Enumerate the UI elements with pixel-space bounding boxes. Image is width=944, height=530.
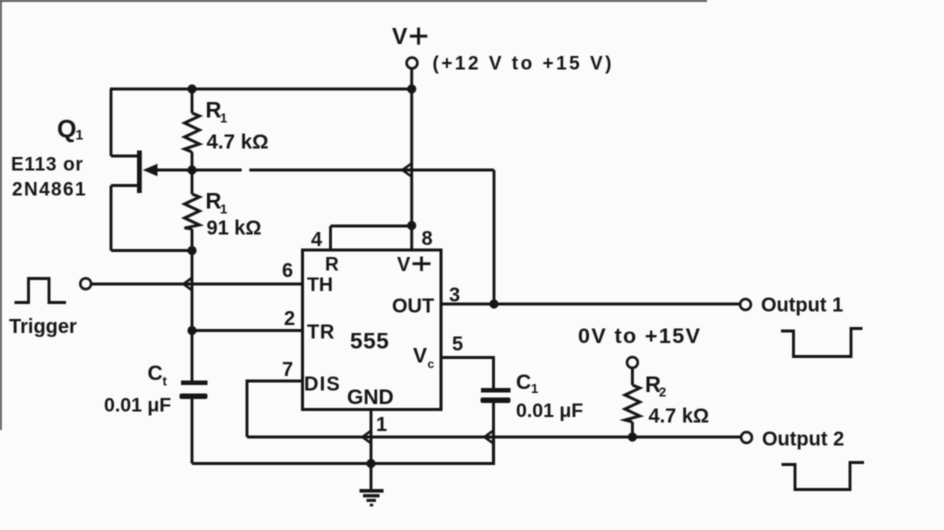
svg-text:t: t — [163, 374, 168, 389]
node top rail / R1 — [187, 84, 196, 93]
arrowhead on gate line at V+ crossing — [403, 164, 412, 177]
wire lower ground rail — [192, 437, 494, 464]
wire gate-link vertical — [493, 170, 496, 304]
svg-text:C: C — [516, 371, 531, 394]
trigger input terminal — [80, 278, 91, 289]
capacitor Ct ref label — [148, 362, 168, 389]
pin 1 vertical — [370, 410, 373, 490]
svg-text:Trigger: Trigger — [9, 316, 77, 338]
power terminal V+ circle — [407, 58, 418, 69]
svg-text:4.7 kΩ: 4.7 kΩ — [207, 131, 269, 154]
svg-text:2: 2 — [659, 385, 666, 400]
svg-text:C: C — [148, 362, 163, 385]
pin 4 stub — [329, 226, 332, 250]
svg-text:Q: Q — [57, 116, 76, 144]
svg-text:2: 2 — [284, 308, 295, 330]
svg-text:4: 4 — [311, 229, 323, 251]
node R2 / output 2 rail — [628, 432, 637, 441]
svg-text:91 kΩ: 91 kΩ — [207, 218, 262, 240]
svg-text:0.01 μF: 0.01 μF — [104, 395, 171, 417]
output 1 terminal — [740, 299, 751, 310]
svg-text:555: 555 — [350, 329, 389, 354]
wire source lead — [111, 155, 139, 158]
svg-text:V: V — [397, 254, 411, 276]
node gate line / divider — [187, 165, 196, 174]
svg-text:R: R — [325, 255, 339, 276]
wire trigger to TH — [92, 283, 304, 286]
output 1 waveform icon — [781, 329, 863, 357]
svg-text:DIS: DIS — [304, 374, 341, 396]
wire divider vertical to cap — [191, 251, 194, 381]
svg-text:Output 2: Output 2 — [762, 429, 844, 451]
svg-text:TR: TR — [307, 322, 335, 344]
svg-text:c: c — [428, 357, 435, 371]
wire left vertical upper — [110, 89, 113, 156]
svg-text:GND: GND — [347, 386, 394, 409]
transistor Q1 channel bar — [137, 151, 142, 194]
pin Vc label — [413, 345, 435, 372]
resistor R1 (4.7k) leads — [191, 89, 194, 113]
svg-text:E113 or: E113 or — [11, 155, 84, 176]
arrowhead trigger line at divider — [184, 278, 193, 290]
capacitor Ct bottom plate — [180, 394, 208, 400]
resistor R2 terminal — [627, 357, 638, 368]
wire Vc line — [441, 358, 494, 389]
resistor R2 leads — [631, 368, 634, 385]
resistor R1 (91k) zigzag — [185, 194, 200, 229]
resistor R1 (91k) leads — [191, 170, 194, 194]
wire output 2 rail — [247, 435, 741, 438]
resistor R1 (4.7k) ref label — [206, 98, 228, 126]
trigger waveform icon — [15, 279, 67, 303]
arrowhead rail at C1 — [485, 431, 494, 443]
svg-text:8: 8 — [422, 228, 433, 250]
output 2 waveform icon — [782, 463, 865, 490]
wire drain to divider bottom — [111, 249, 192, 252]
resistor R1 (91k) ref label — [206, 189, 228, 217]
capacitor C1 top plate — [481, 388, 511, 393]
wire reset strap pin4 to pin8 — [331, 225, 412, 228]
IC U1 555 box — [303, 250, 442, 410]
wire left vertical lower — [110, 186, 113, 251]
svg-text:Output 1: Output 1 — [761, 295, 843, 317]
svg-text:OUT: OUT — [392, 296, 434, 318]
resistor R2 zigzag — [625, 385, 640, 422]
capacitor C1 lower stem — [492, 403, 495, 437]
wire V+ vertical feed — [410, 89, 413, 250]
capacitor C1 bottom plate — [481, 398, 511, 404]
svg-text:7: 7 — [282, 359, 293, 381]
node TR / divider — [187, 326, 196, 335]
svg-text:(+12 V to +15 V): (+12 V to +15 V) — [433, 54, 615, 75]
capacitor Ct top plate — [181, 381, 208, 386]
arrowhead rail at pin 1 — [363, 431, 372, 443]
wire V+ stub — [410, 69, 413, 89]
svg-text:0.01 μF: 0.01 μF — [516, 400, 583, 422]
wire top rail — [110, 87, 412, 90]
wire gate line — [156, 169, 494, 172]
transistor Q1 gate arrow — [143, 164, 158, 176]
resistor R2 ref label — [645, 372, 666, 400]
svg-text:0V to +15V: 0V to +15V — [578, 324, 701, 348]
capacitor C1 ref label — [516, 371, 538, 396]
svg-text:V: V — [392, 23, 408, 49]
node divider bottom — [187, 246, 196, 255]
wire drain lead — [111, 184, 139, 187]
svg-text:1: 1 — [76, 127, 84, 143]
svg-text:5: 5 — [452, 334, 463, 356]
node top rail / V+ drop — [407, 84, 416, 93]
resistor R1 (4.7k) zigzag — [185, 113, 200, 152]
transistor Q1 label — [57, 116, 84, 144]
svg-text:1: 1 — [531, 381, 538, 396]
output 2 terminal — [741, 432, 752, 443]
node ground stem — [366, 459, 375, 468]
node OUT / gate link — [489, 299, 498, 308]
svg-text:4.7 kΩ: 4.7 kΩ — [649, 406, 710, 428]
node strap / V+ feed — [407, 221, 416, 230]
wire TR line — [192, 329, 303, 332]
svg-text:V: V — [413, 345, 427, 368]
svg-text:TH: TH — [307, 274, 333, 296]
svg-text:2N4861: 2N4861 — [12, 180, 87, 201]
svg-text:6: 6 — [282, 260, 293, 282]
svg-text:1: 1 — [376, 414, 387, 436]
wire DIS loop — [247, 381, 303, 437]
capacitor Ct lower stem — [191, 399, 194, 464]
wire OUT line — [441, 303, 740, 306]
svg-text:1: 1 — [220, 111, 227, 126]
ground symbol — [360, 489, 384, 506]
svg-text:1: 1 — [220, 202, 227, 217]
